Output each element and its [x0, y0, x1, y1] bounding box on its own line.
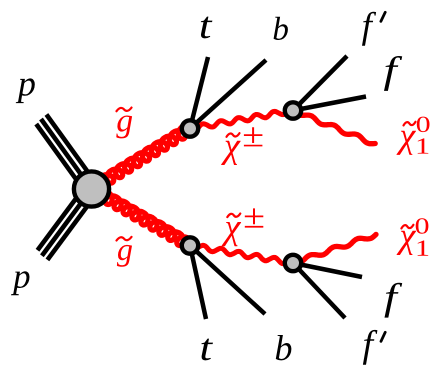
label neutralino chi01 (lower): [397, 218, 429, 256]
label chargino chi+- (lower): [222, 208, 264, 246]
label neutralino chi01 (upper): [397, 117, 430, 155]
wire: top quark line t (lower): [190, 246, 206, 320]
wire: top quark line t (upper): [190, 57, 208, 129]
label b (lower): [276, 335, 292, 360]
label f-prime (lower): [363, 330, 385, 365]
label f-prime (upper): [362, 12, 385, 46]
wire: chargino line chi+- (lower, red wavy): [190, 245, 293, 263]
node: primary interaction vertex blob: [74, 171, 109, 206]
label p (lower proton): [11, 271, 30, 295]
node: chargino decay vertex (upper): [285, 102, 301, 118]
label f (lower): [385, 283, 403, 318]
node: chargino decay vertex (lower): [285, 255, 301, 271]
wire: fermion line f (lower): [293, 263, 362, 277]
label gluino g~ (upper): [116, 108, 132, 139]
label b (upper): [274, 17, 288, 40]
label chargino chi+- (upper): [221, 127, 262, 165]
wire: incoming proton beam (lower-left), triple line: [38, 181, 99, 260]
label gluino g~ (lower): [117, 237, 133, 267]
wire: gluino line g~ (lower, red coil): [87, 186, 193, 251]
node: gluino decay vertex (lower): [182, 237, 198, 253]
label f (upper): [384, 56, 402, 91]
wire: chargino line chi+- (upper, red wavy): [190, 108, 293, 130]
wire: bottom quark line b (upper): [190, 60, 266, 129]
wire: bottom quark line b (lower): [190, 246, 265, 315]
wire: fermion line f-prime (lower): [293, 263, 345, 318]
wire: neutralino line chi01 (upper, red wavy): [293, 111, 375, 144]
wire: neutralino line chi01 (lower, red wavy): [293, 234, 376, 263]
node: gluino decay vertex (upper): [182, 120, 198, 136]
label t (upper): [201, 17, 213, 39]
wire: fermion line f (upper): [293, 97, 366, 111]
label t (lower): [201, 339, 213, 361]
wire: fermion line f-prime (upper): [293, 56, 347, 111]
wire: incoming proton beam (upper-left), triple line: [36, 115, 96, 194]
wire: gluino line g~ (upper, red coil): [89, 125, 195, 194]
label p (upper proton): [16, 78, 35, 103]
